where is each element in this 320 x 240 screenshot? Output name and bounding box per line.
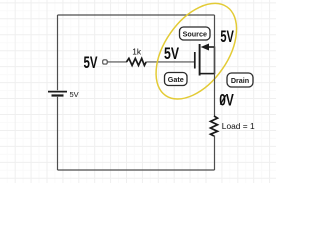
label box Gate [165,73,188,86]
transistor Q1 source lead [208,46,215,48]
transistor Q1 drain lead [200,73,215,75]
svg-text:Source: Source [183,30,207,39]
wire left rail lower [57,97,59,170]
svg-text:5V: 5V [84,54,98,72]
terminal input node [103,60,108,64]
wire right trunk lower [214,136,216,171]
svg-text:1k: 1k [132,46,142,56]
wire left rail upper [57,15,59,90]
wire top rail [58,14,215,16]
transistor Q1 source arrow [201,44,209,51]
background grid [0,0,276,183]
wire resistor to gate [146,61,194,63]
node drain 0V label [219,92,234,110]
svg-text:5V: 5V [164,45,179,63]
transistor Q1 body trunk [214,47,216,75]
svg-text:Load = 1: Load = 1 [222,121,255,131]
highlight ellipse [140,0,253,113]
svg-text:5V: 5V [70,90,79,99]
wire right trunk upper [214,15,216,117]
wire input to resistor [107,61,127,63]
transistor Q1 PMOS gate bar [194,52,196,69]
svg-text:0V: 0V [219,92,234,110]
svg-text:Drain: Drain [231,76,249,85]
label box Drain [227,73,253,87]
resistor R1 zigzag [127,58,147,65]
wire bottom rail [58,169,215,171]
resistor R2 load zigzag [211,116,218,136]
battery B1 [48,92,67,96]
svg-text:Gate: Gate [168,75,184,84]
label box Source [180,27,211,40]
svg-text:5V: 5V [220,28,234,46]
transistor Q1 channel bar [199,44,201,76]
